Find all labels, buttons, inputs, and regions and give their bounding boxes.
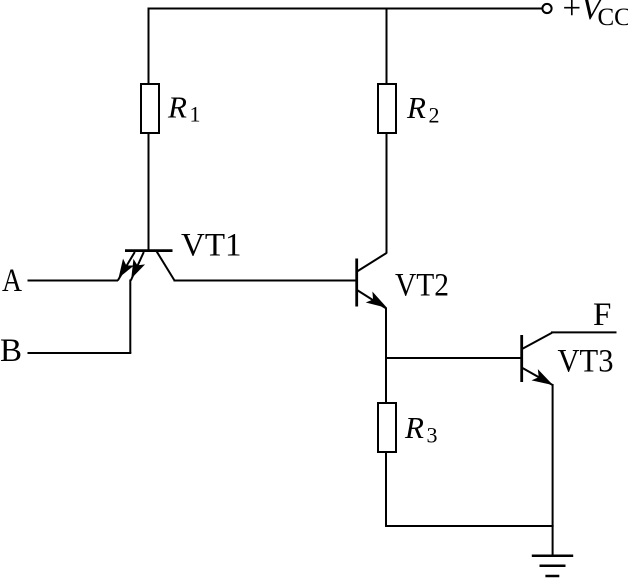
wire: emitter node to VT3 base bbox=[385, 357, 521, 359]
wire: input A bbox=[28, 280, 119, 282]
svg-text:1: 1 bbox=[190, 102, 201, 127]
ground stem bbox=[552, 526, 554, 555]
wire: R1 to VT1 base bbox=[148, 133, 150, 250]
transistor VT2 emitter with arrow bbox=[357, 290, 386, 308]
wire: VT1 emitter 2 down to B bbox=[129, 280, 131, 354]
terminal +Vcc open circle bbox=[542, 4, 551, 13]
resistor R3 bbox=[378, 403, 396, 452]
svg-text:CC: CC bbox=[598, 4, 628, 31]
wire: VT1 collector to VT2 base bbox=[174, 280, 357, 282]
transistor VT3 emitter with arrow bbox=[523, 368, 553, 385]
ground bar 2 bbox=[540, 565, 566, 568]
label +Vcc bbox=[563, 0, 628, 31]
wire: bottom rail bbox=[385, 525, 554, 527]
svg-text:R: R bbox=[404, 410, 424, 445]
svg-text:F: F bbox=[593, 297, 611, 333]
svg-text:+: + bbox=[563, 0, 582, 27]
svg-text:VT1: VT1 bbox=[181, 228, 242, 264]
wire: VT2 emitter down to R3 bbox=[385, 308, 387, 404]
transistor VT3 collector bbox=[522, 333, 552, 349]
wire: VT2 collector up to R2 bbox=[386, 133, 388, 254]
transistor VT1 emitter 1 bbox=[118, 252, 135, 281]
svg-text:A: A bbox=[2, 263, 22, 299]
transistor VT1 (multi-emitter) base bar bbox=[125, 249, 173, 252]
wire: VT3 collector to output F bbox=[551, 331, 617, 333]
label R1 bbox=[167, 90, 201, 127]
wire: +Vcc top rail bbox=[148, 8, 543, 10]
resistor R1 bbox=[141, 84, 159, 133]
svg-text:VT3: VT3 bbox=[558, 344, 614, 380]
resistor R2 bbox=[378, 84, 396, 133]
transistor VT1 collector bbox=[157, 251, 175, 280]
wire: R2 up to top rail bbox=[386, 9, 388, 85]
transistor VT1 emitter 2 bbox=[131, 252, 144, 281]
wire: top rail to R1 bbox=[148, 9, 150, 85]
ground bar 1 bbox=[532, 555, 573, 558]
svg-text:R: R bbox=[406, 90, 426, 125]
transistor VT3 base bar bbox=[520, 335, 523, 382]
wire: VT3 emitter down to bottom rail bbox=[552, 384, 554, 526]
wire: input B bbox=[28, 352, 132, 354]
transistor VT2 base bar bbox=[355, 259, 358, 307]
ground bar 3 bbox=[545, 575, 559, 578]
label R2 bbox=[406, 90, 440, 128]
svg-text:3: 3 bbox=[427, 423, 438, 448]
transistor VT2 collector bbox=[357, 253, 387, 272]
label R3 bbox=[404, 410, 438, 448]
svg-text:VT2: VT2 bbox=[395, 268, 449, 304]
svg-text:B: B bbox=[0, 333, 22, 369]
wire: R3 down to bottom rail bbox=[385, 452, 387, 527]
svg-text:2: 2 bbox=[429, 103, 440, 128]
svg-text:R: R bbox=[167, 90, 187, 125]
